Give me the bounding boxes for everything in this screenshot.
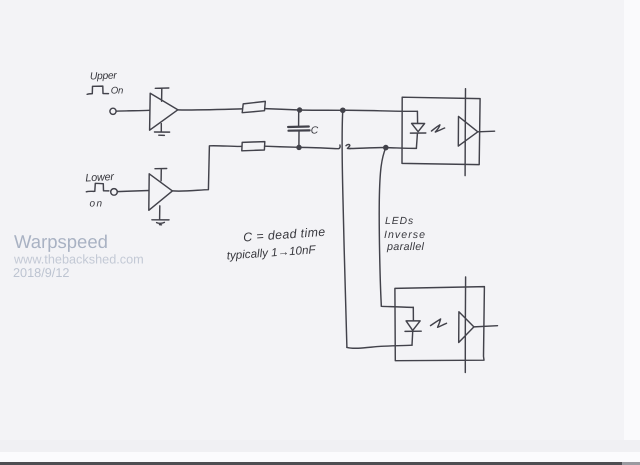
wire: upper input to buffer	[116, 109, 149, 112]
LED D2 cathode bar	[405, 330, 421, 332]
svg-text:on: on	[90, 199, 104, 210]
wire: bottom of rail to LED D2 cathode	[347, 345, 412, 348]
power tick of U1	[155, 88, 169, 101]
svg-text:Inverse: Inverse	[384, 229, 426, 241]
LED D1 triangle	[412, 123, 425, 131]
phototransistor Q1 vertical rail	[464, 89, 466, 176]
wire: hop to node 4	[351, 148, 386, 149]
op-amp U4 (lower buffer triangle)	[149, 174, 173, 211]
svg-text:Lower: Lower	[85, 171, 115, 185]
wire: node1 to node2	[300, 109, 343, 111]
watermark	[13, 231, 144, 280]
node: lower input terminal	[111, 189, 118, 196]
wire: Q1 output	[478, 130, 495, 133]
svg-text:On: On	[111, 86, 123, 97]
phototransistor Q2 vertical rail	[464, 277, 466, 373]
LED D1 cathode bar	[410, 132, 425, 134]
opto-coupler U3 box (lower)	[395, 287, 485, 361]
LED D2 triangle	[406, 321, 420, 331]
svg-text:LEDs: LEDs	[385, 216, 414, 227]
wire: node4 to U2 LED cathode	[386, 147, 417, 150]
LED D1 cathode lead	[416, 133, 417, 148]
wire: node2 down the long left rail	[342, 110, 347, 347]
wire: node3 to crossover hop (ends with up-curl)	[299, 145, 340, 149]
resistor R2	[242, 142, 265, 151]
opto-coupler U2 box (upper)	[402, 97, 480, 164]
wire: R2 to node 3	[265, 146, 299, 147]
svg-text:Upper: Upper	[90, 71, 118, 83]
svg-text:2018/9/12: 2018/9/12	[13, 266, 69, 280]
node junction dot 2	[341, 108, 345, 112]
wire: lower input to buffer	[117, 191, 149, 192]
capacitor C top plate	[288, 125, 309, 128]
capacitor C: top lead	[298, 112, 300, 126]
svg-text:C: C	[311, 126, 319, 137]
capacitor C bottom lead	[298, 132, 300, 146]
handwritten labels	[85, 71, 426, 263]
svg-text:parallel: parallel	[386, 241, 425, 253]
node junction dot 3	[297, 145, 301, 149]
svg-text:www.thebackshed.com: www.thebackshed.com	[13, 253, 144, 267]
ground below U4	[152, 206, 169, 225]
node junction dot 4	[384, 146, 388, 150]
wire: node4 down to LED D2 anode	[379, 148, 413, 308]
LED D2 cathode lead	[411, 332, 414, 346]
wire: Q2 output	[474, 326, 498, 327]
wire: node2 to opto U2 LED anode	[343, 110, 418, 111]
light arrow squiggle U3	[431, 319, 447, 327]
capacitor C bottom plate	[289, 129, 310, 132]
resistor R1	[242, 101, 265, 112]
crossover hop mark (2-shaped)	[346, 144, 351, 148]
op-amp U1 (upper buffer triangle)	[150, 93, 178, 130]
wire: lower buffer to resistor R2 (up and over)	[172, 146, 241, 191]
phototransistor Q1 triangle	[458, 116, 478, 146]
node junction dot 1	[298, 108, 302, 112]
LED D1 anode lead	[416, 111, 418, 123]
pulse symbol upper	[87, 86, 108, 94]
phototransistor Q2 triangle	[459, 312, 474, 343]
svg-text:Warpspeed: Warpspeed	[14, 231, 108, 252]
bottom scanner edge dark line	[0, 462, 622, 465]
power tick of U4	[155, 169, 167, 181]
pulse symbol lower	[86, 183, 109, 192]
light arrow squiggle U2	[432, 125, 445, 132]
wire: R1 to node 1	[265, 109, 300, 110]
ground below U1	[155, 124, 170, 136]
node: upper input terminal	[110, 108, 116, 114]
LED D2 anode lead	[412, 307, 414, 320]
wire: U1 output to resistor R1	[178, 109, 242, 110]
